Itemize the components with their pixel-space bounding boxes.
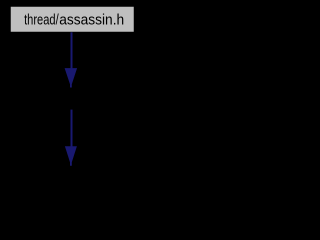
edge 1 arrowhead	[65, 68, 78, 87]
node: thread/assassin.h box	[11, 7, 134, 32]
svg-text:assassin.h: assassin.h	[59, 12, 124, 28]
edge 2 line	[71, 110, 73, 148]
svg-text:thread/: thread/	[24, 12, 59, 28]
edge 2 arrowhead	[65, 146, 77, 165]
edge 1 line	[71, 32, 73, 70]
